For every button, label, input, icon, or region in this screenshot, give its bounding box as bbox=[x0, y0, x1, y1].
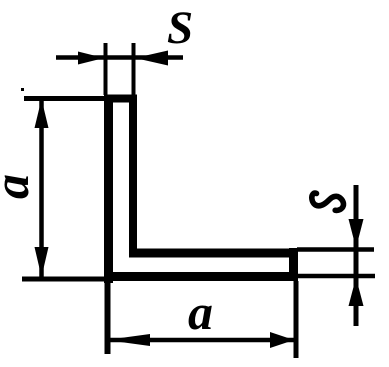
svg-text:a: a bbox=[188, 284, 213, 340]
svg-text:S: S bbox=[167, 2, 193, 54]
svg-text:a: a bbox=[0, 174, 39, 199]
